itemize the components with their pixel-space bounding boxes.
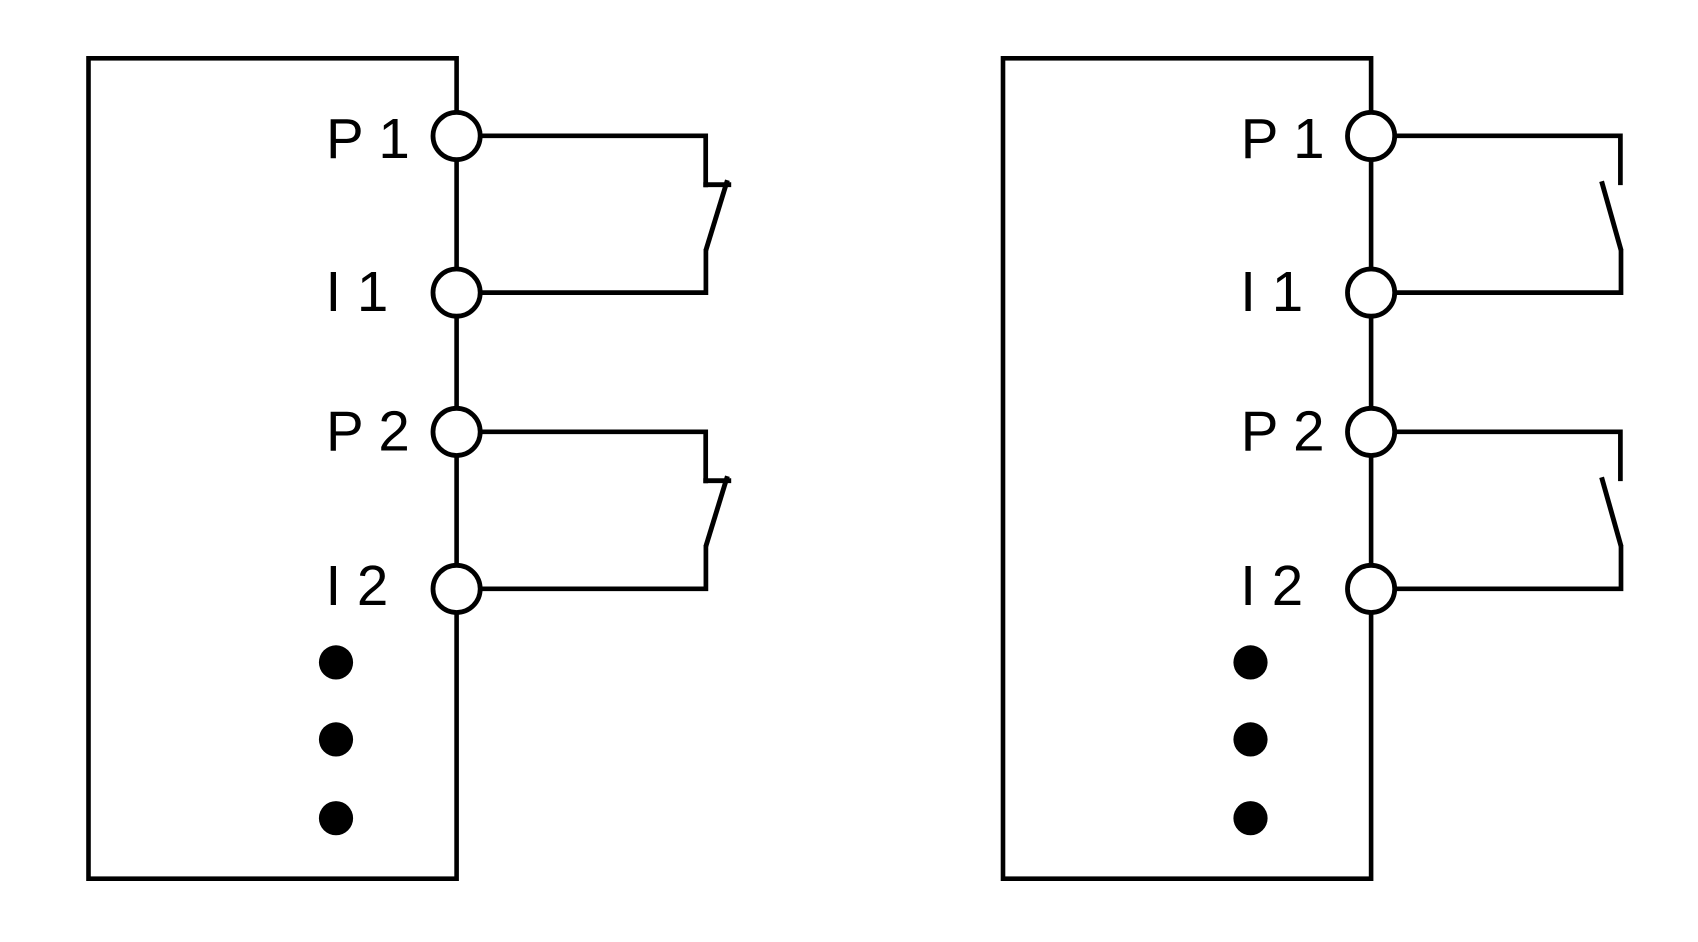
svg-text:P 2: P 2 xyxy=(326,399,410,462)
label P1 of U2 xyxy=(1241,107,1325,170)
label I1 of U1 xyxy=(326,260,389,323)
wire switch S1 bottom to U1.I1 xyxy=(457,249,706,293)
switch S1 closed contact (break contact) xyxy=(703,180,731,250)
terminal P1 of U2 xyxy=(1348,112,1395,159)
svg-text:P 2: P 2 xyxy=(1241,399,1325,462)
label P1 of U1 xyxy=(326,107,410,170)
svg-text:P 1: P 1 xyxy=(1241,107,1325,170)
svg-text:I 2: I 2 xyxy=(326,554,389,617)
switch S2 closed contact (break contact) xyxy=(703,476,731,546)
module box U1 xyxy=(89,58,457,878)
wire switch S2 bottom to U1.I2 xyxy=(457,545,706,589)
switch S4 open contact (make contact) xyxy=(1602,477,1621,546)
svg-text:I 2: I 2 xyxy=(1240,554,1303,617)
label P2 of U2 xyxy=(1241,399,1325,462)
module box U2 xyxy=(1003,58,1371,878)
terminal P2 of U1 xyxy=(433,408,480,455)
svg-text:P 1: P 1 xyxy=(326,107,410,170)
svg-text:I 1: I 1 xyxy=(1240,260,1303,323)
wire U2.P1 to switch S3 top xyxy=(1371,136,1620,185)
terminal P2 of U2 xyxy=(1348,408,1395,455)
terminal I2 of U1 xyxy=(433,565,480,612)
ellipsis further terminals of U1 xyxy=(319,645,353,835)
wire U1.P2 to switch S2 top xyxy=(457,432,706,483)
label I1 of U2 xyxy=(1240,260,1303,323)
label P2 of U1 xyxy=(326,399,410,462)
ellipsis further terminals of U2 xyxy=(1233,645,1267,835)
terminal I2 of U2 xyxy=(1348,565,1395,612)
terminal I1 of U2 xyxy=(1348,269,1395,316)
wire U1.P1 to switch S1 top xyxy=(457,136,706,187)
svg-text:I 1: I 1 xyxy=(326,260,389,323)
wire switch S3 bottom to U2.I1 xyxy=(1371,249,1621,293)
label I2 of U2 xyxy=(1240,554,1303,617)
terminal P1 of U1 xyxy=(433,112,480,159)
wire switch S4 bottom to U2.I2 xyxy=(1371,545,1621,589)
terminal I1 of U1 xyxy=(433,269,480,316)
switch S3 open contact (make contact) xyxy=(1602,181,1621,250)
label I2 of U1 xyxy=(326,554,389,617)
wire U2.P2 to switch S4 top xyxy=(1371,432,1620,481)
